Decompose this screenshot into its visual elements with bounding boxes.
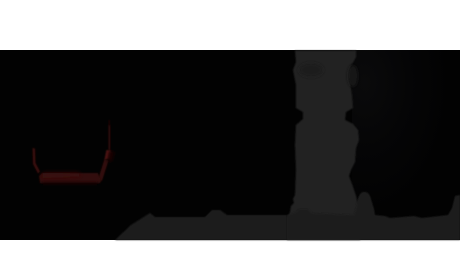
- faint lighter zone right of column: [352, 50, 460, 216]
- photo black background: [0, 50, 460, 240]
- bottom skyline band: [115, 210, 287, 240]
- red glow: right vessel wall thin line: [108, 125, 110, 152]
- red glow: bottom band brighter top-left: [42, 173, 80, 178]
- red glow: left vessel wall: [33, 148, 41, 174]
- crescent bulge on column's right shoulder: [348, 65, 358, 87]
- dark texture blobs inside column: [299, 63, 323, 77]
- red glow: band lower fade: [42, 182, 98, 185]
- red glow: dim halo right of knot: [107, 150, 115, 162]
- red glow: right wall bright knot: [105, 150, 112, 160]
- faint grey column (center object): [287, 51, 360, 241]
- red glow: bottom band: [39, 173, 101, 183]
- red glow: right wall lower diagonal: [98, 159, 109, 181]
